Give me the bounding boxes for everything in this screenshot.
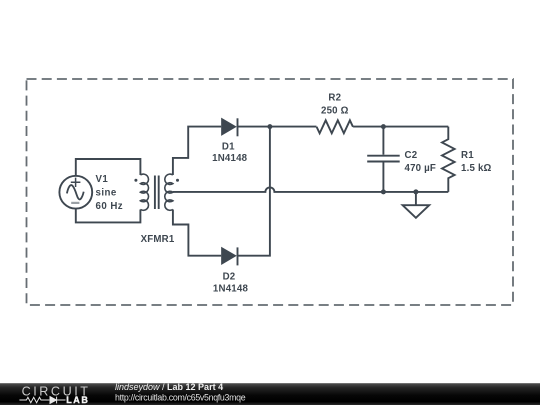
svg-text:D2: D2 xyxy=(223,272,236,283)
logo waveform and diode xyxy=(19,397,65,404)
wire secondary bottom to D2 anode xyxy=(173,210,221,256)
junction node C2/rail xyxy=(381,189,386,194)
svg-text:LAB: LAB xyxy=(66,395,89,405)
junction node ground/rail xyxy=(413,189,418,194)
wire D2 cathode up to output node xyxy=(238,127,270,256)
wire V1 bottom to transformer primary xyxy=(76,209,141,223)
transformer polarity dots xyxy=(134,179,137,182)
diode D1 xyxy=(222,118,237,136)
resistor R2 xyxy=(317,120,353,133)
svg-text:lindseydow / Lab 12 Part 4: lindseydow / Lab 12 Part 4 xyxy=(115,382,223,392)
diode D2 xyxy=(222,247,237,265)
junction node R2/C2 xyxy=(381,124,386,129)
schematic boundary dashed frame xyxy=(27,79,514,305)
C2 labels xyxy=(405,150,437,174)
D2 labels xyxy=(213,272,249,295)
svg-text:1N4148: 1N4148 xyxy=(213,283,249,294)
capacitor C2 xyxy=(367,127,400,192)
voltage source V1 xyxy=(59,176,92,209)
svg-text:R2: R2 xyxy=(328,93,341,104)
svg-text:http://circuitlab.com/c65v5nqf: http://circuitlab.com/c65v5nqfu3mqe xyxy=(115,393,246,403)
svg-text:XFMR1: XFMR1 xyxy=(141,234,175,245)
svg-text:60 Hz: 60 Hz xyxy=(96,201,124,212)
svg-text:sine: sine xyxy=(96,187,117,198)
transformer XFMR1 secondary winding xyxy=(165,174,173,210)
svg-text:D1: D1 xyxy=(222,142,235,153)
wire R2 to R1 top xyxy=(353,126,448,128)
wire D1 cathode to node xyxy=(238,126,317,128)
svg-text:1N4148: 1N4148 xyxy=(212,153,248,164)
wire V1 top to transformer primary xyxy=(76,159,141,176)
svg-text:V1: V1 xyxy=(96,174,109,185)
R1 labels xyxy=(461,150,492,174)
svg-text:1.5 kΩ: 1.5 kΩ xyxy=(461,163,492,174)
R2 labels xyxy=(321,93,349,117)
svg-text:470 µF: 470 µF xyxy=(405,163,437,174)
ground xyxy=(403,192,430,218)
V1 labels xyxy=(96,174,124,212)
transformer core xyxy=(155,176,159,210)
svg-text:C2: C2 xyxy=(405,150,418,161)
D1 labels xyxy=(212,142,248,165)
wire secondary top to D1 anode xyxy=(173,127,221,175)
junction node D1/D2/R2 xyxy=(267,124,272,129)
svg-text:250 Ω: 250 Ω xyxy=(321,106,349,117)
svg-text:R1: R1 xyxy=(461,150,474,161)
transformer XFMR1 primary winding xyxy=(140,174,148,210)
center-tap rail with hop over D2 wire xyxy=(173,187,448,192)
footer bar xyxy=(0,383,540,405)
resistor R1 xyxy=(442,127,455,192)
